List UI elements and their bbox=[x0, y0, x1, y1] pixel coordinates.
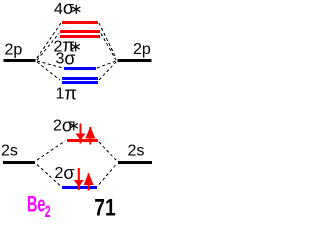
svg-text:2σ∗: 2σ∗ bbox=[53, 116, 80, 136]
svg-text:2s: 2s bbox=[1, 143, 18, 160]
MO level 1π lower (blue line) bbox=[62, 81, 98, 84]
dashed connector right 2s to 2σ* bbox=[99, 142, 116, 160]
AO level 2p right (black line) bbox=[118, 59, 152, 62]
dashed connector left 2p to 1π bbox=[37, 62, 60, 80]
MO level 1π upper (blue line) bbox=[62, 77, 98, 80]
AO level 2p left (black line) bbox=[4, 59, 36, 62]
electron down-arrow on 2σ* bbox=[76, 124, 86, 144]
dashed connector right 2p to 2π* bbox=[101, 34, 116, 61]
svg-text:71: 71 bbox=[94, 193, 115, 221]
electron up-arrow on 2σ bbox=[84, 173, 94, 191]
MO level 2π* upper (red line) bbox=[60, 30, 100, 33]
svg-text:Be: Be bbox=[27, 192, 45, 217]
dashed connector right 2p to 3σ bbox=[97, 61, 116, 68]
dashed connector left 2s to 2σ* bbox=[37, 141, 65, 160]
dashed connector left 2p to 4σ* bbox=[37, 23, 61, 58]
dashed connector left 2s to 2σ bbox=[37, 165, 60, 186]
svg-text:2p: 2p bbox=[133, 41, 151, 58]
dashed connector right 2p to 1π bbox=[99, 62, 116, 80]
dashed connector left 2p to 3σ bbox=[37, 61, 63, 68]
svg-text:4σ∗: 4σ∗ bbox=[54, 0, 83, 18]
svg-text:2σ: 2σ bbox=[55, 163, 75, 183]
svg-text:3σ: 3σ bbox=[56, 49, 76, 69]
dashed connector right 2p to 4σ* bbox=[99, 23, 116, 58]
svg-text:2: 2 bbox=[45, 202, 51, 221]
svg-text:2p: 2p bbox=[5, 42, 23, 59]
svg-text:2s: 2s bbox=[128, 143, 145, 160]
MO level 2σ (blue line) bbox=[62, 186, 97, 189]
svg-text:1π: 1π bbox=[56, 84, 77, 104]
dashed connector right 2s to 2σ bbox=[99, 165, 116, 185]
MO level 3σ (blue line) bbox=[64, 67, 96, 70]
AO level 2s left (black line) bbox=[3, 161, 35, 164]
MO level 2π* lower (red line) bbox=[60, 35, 100, 38]
dashed connector left 2p to 2π* bbox=[37, 34, 59, 61]
AO level 2s right (black line) bbox=[118, 161, 152, 164]
MO level 4σ* (red line) bbox=[62, 21, 98, 24]
electron up-arrow on 2σ* bbox=[85, 127, 95, 145]
electron down-arrow on 2σ bbox=[74, 168, 84, 190]
MO level 2σ* (red line) bbox=[67, 139, 98, 142]
